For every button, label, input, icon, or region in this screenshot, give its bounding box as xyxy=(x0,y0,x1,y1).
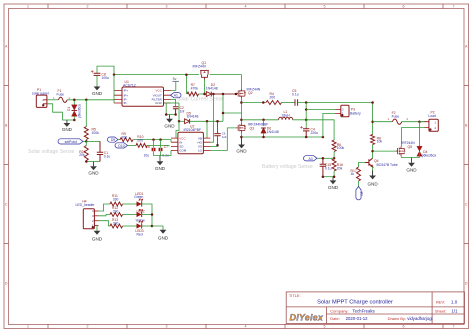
wire pin4 to R11 xyxy=(99,204,111,211)
svg-text:Date:: Date: xyxy=(330,316,340,321)
wire C7 bottom xyxy=(160,151,162,155)
svg-text:1uF: 1uF xyxy=(222,135,227,139)
svg-text:LED_header: LED_header xyxy=(76,203,96,207)
wire to R5 xyxy=(85,100,87,127)
wire battery+ to R8 xyxy=(372,103,374,135)
wire gate line to VB line xyxy=(222,94,224,121)
svg-text:GND: GND xyxy=(367,181,378,186)
junction xyxy=(222,112,225,115)
svg-text:7: 7 xyxy=(453,5,455,9)
junction xyxy=(371,120,374,123)
junction xyxy=(159,138,162,141)
junction xyxy=(151,225,154,228)
svg-text:330: 330 xyxy=(113,198,119,202)
wire D6 to ground rail xyxy=(263,133,265,137)
svg-text:TechFreaks: TechFreaks xyxy=(353,308,375,313)
ground under Q4 xyxy=(367,171,378,187)
wire pin2 to R13 xyxy=(99,221,111,226)
junction xyxy=(85,140,88,143)
wire Q5 source rail xyxy=(402,156,420,157)
wire D5 to VB net xyxy=(190,120,223,122)
svg-text:1N4148: 1N4148 xyxy=(267,130,279,134)
junction xyxy=(165,113,168,116)
svg-text:Fuse: Fuse xyxy=(392,114,400,118)
svg-text:1N4148: 1N4148 xyxy=(206,86,218,90)
svg-text:IP-: IP- xyxy=(124,101,128,105)
junction xyxy=(178,120,181,123)
svg-text:0.1u: 0.1u xyxy=(325,167,332,171)
wire pin1 to ground xyxy=(96,226,98,231)
svg-text:C7: C7 xyxy=(164,145,168,149)
junction xyxy=(262,119,265,122)
junction xyxy=(418,120,421,123)
wire node to R24 xyxy=(85,141,87,145)
wire R5 to setPoint node xyxy=(85,140,87,142)
wire C5 to load column xyxy=(298,102,373,104)
svg-text:Q5: Q5 xyxy=(408,145,413,149)
transistor Q4 BC547B xyxy=(365,158,373,167)
wire GND pin to 5v net riser xyxy=(171,102,180,104)
svg-text:A3: A3 xyxy=(309,157,313,161)
wire A3 node xyxy=(323,157,334,159)
svg-text:Drawn By:: Drawn By: xyxy=(388,316,406,321)
junction xyxy=(322,157,325,160)
svg-text:TITLE:: TITLE: xyxy=(289,293,301,298)
svg-text:C: C xyxy=(5,203,8,207)
junction xyxy=(212,93,215,96)
wire P1 pin1 to GND net xyxy=(47,104,74,120)
resistor R11 xyxy=(110,202,123,206)
capacitor C1 xyxy=(97,141,111,161)
svg-text:GND: GND xyxy=(164,124,175,129)
capacitor C6 10u xyxy=(144,145,156,157)
wire node to Q5 gate xyxy=(373,150,397,152)
junction xyxy=(333,157,336,160)
svg-text:200: 200 xyxy=(122,136,128,140)
wire P3 pin2 to battery+ xyxy=(306,109,335,111)
wire D4 to rail xyxy=(419,151,421,157)
wire F2 to P2 xyxy=(402,121,426,123)
svg-text:VCC: VCC xyxy=(155,89,162,93)
svg-text:solar panel: solar panel xyxy=(32,92,49,96)
wire bus to R7 line xyxy=(185,75,187,94)
svg-text:C: C xyxy=(465,203,468,207)
wire R13 to LED3 xyxy=(123,225,137,227)
LED LED2 Yellow xyxy=(135,209,145,222)
junction xyxy=(152,138,155,141)
svg-text:100u: 100u xyxy=(102,76,110,80)
svg-text:BC547B Tube: BC547B Tube xyxy=(377,163,398,167)
svg-text:GND: GND xyxy=(62,127,73,132)
wire node to C1 xyxy=(86,140,100,142)
svg-text:Red: Red xyxy=(137,232,143,236)
svg-text:5: 5 xyxy=(324,325,326,329)
wire HO to gate line xyxy=(210,94,213,142)
junction xyxy=(240,136,243,139)
svg-text:C6: C6 xyxy=(146,145,150,149)
resistor R13 xyxy=(110,224,123,228)
node setPoint xyxy=(58,139,86,144)
svg-text:Solar Current Sense: Solar Current Sense xyxy=(177,96,224,102)
wire to C6 xyxy=(153,140,155,148)
svg-text:REV:: REV: xyxy=(436,299,445,304)
svg-text:Fuse: Fuse xyxy=(57,92,65,96)
junction xyxy=(151,213,154,216)
diode D1 p6ke36ca TVS xyxy=(67,104,81,118)
wire C8 top to bus xyxy=(97,66,114,75)
svg-text:C9: C9 xyxy=(222,131,226,135)
wire to D5 xyxy=(179,120,184,122)
node D9 input flag xyxy=(107,137,118,142)
svg-text:20k: 20k xyxy=(79,153,85,157)
wire P2 pin1 xyxy=(420,121,425,123)
svg-text:330: 330 xyxy=(113,209,119,213)
wire F1 to ACS712 IP bus xyxy=(67,99,114,101)
wire branch to switch node xyxy=(223,112,241,114)
svg-text:1.0: 1.0 xyxy=(451,300,458,305)
ground under battery divider xyxy=(328,177,339,190)
junction xyxy=(305,136,308,139)
wire L1 to battery+ / R6 xyxy=(293,120,334,140)
wire VCC vertical xyxy=(176,121,179,138)
wire C8 to ground xyxy=(96,75,98,86)
junction xyxy=(262,136,265,139)
svg-text:0.1u: 0.1u xyxy=(292,93,299,97)
svg-text:D: D xyxy=(465,282,468,286)
ground under load switch xyxy=(406,158,417,173)
junction xyxy=(73,99,76,102)
wire to D1 xyxy=(73,100,75,105)
wire R9 to IN xyxy=(133,140,171,143)
svg-text:D9: D9 xyxy=(111,138,115,142)
svg-text:1: 1 xyxy=(27,5,29,9)
node A3 xyxy=(304,156,323,161)
svg-text:Solar MPPT Charge controller: Solar MPPT Charge controller xyxy=(317,300,393,306)
wire D1 to GND rail xyxy=(73,116,75,120)
capacitor C2 xyxy=(173,106,184,115)
LED LED1 Green xyxy=(134,192,144,207)
transistor transistor Q5 IRF244N xyxy=(396,146,405,156)
junction xyxy=(240,101,243,104)
wire P1 pin2 to F1 xyxy=(47,99,59,101)
svg-text:6: 6 xyxy=(403,325,405,329)
node D8 flag below R17 xyxy=(356,187,364,200)
svg-text:4: 4 xyxy=(245,5,247,9)
wire R8 to Q4 collector xyxy=(372,145,374,159)
svg-text:3: 3 xyxy=(166,325,168,329)
svg-text:GND: GND xyxy=(155,101,163,105)
svg-text:0.1u: 0.1u xyxy=(104,154,111,158)
svg-text:LO: LO xyxy=(198,149,203,153)
svg-text:IP+: IP+ xyxy=(124,89,129,93)
wire bus to Q1 xyxy=(114,74,199,76)
capacitor C5 xyxy=(292,89,299,106)
junction xyxy=(113,73,116,76)
svg-text:IR2104PBF: IR2104PBF xyxy=(184,128,202,132)
svg-text:D1: D1 xyxy=(67,107,71,111)
svg-text:D10: D10 xyxy=(118,144,124,148)
wire P3 pin1 to ground rail xyxy=(323,113,335,137)
ground under C6 C7 xyxy=(155,156,166,172)
resistor R6 xyxy=(332,140,344,152)
wire 5v net down to D5 line xyxy=(178,103,180,121)
op-amp U1 ACS712 current sensor xyxy=(114,80,171,106)
ground under H4 xyxy=(92,231,103,242)
resistor R9 xyxy=(120,132,133,141)
diode D4 p6ke36ca TVS xyxy=(417,146,436,157)
junction xyxy=(371,101,374,104)
inductor L1 33uH xyxy=(279,110,293,120)
svg-text:2020-01-12: 2020-01-12 xyxy=(346,316,369,321)
junction xyxy=(240,119,243,122)
svg-text:100k: 100k xyxy=(337,146,345,150)
connector P3 Battery xyxy=(335,105,361,117)
svg-text:ACS712: ACS712 xyxy=(123,83,136,87)
svg-text:GND: GND xyxy=(155,166,166,171)
svg-text:D: D xyxy=(5,282,8,286)
capacitor C7 0.1u xyxy=(159,145,169,157)
junction xyxy=(305,119,308,122)
diode D5 1N4148 xyxy=(185,111,199,123)
wire to F2 xyxy=(373,121,393,123)
op-amp U2 IR2104PBF gate driver xyxy=(171,125,210,154)
svg-text:3: 3 xyxy=(166,5,168,9)
wire flag to R10 xyxy=(130,144,136,146)
junction xyxy=(174,113,177,116)
svg-text:A1: A1 xyxy=(174,94,178,98)
svg-text:10u: 10u xyxy=(144,153,150,157)
wire LED cathode bus xyxy=(142,204,152,226)
diode D2 1N4148 xyxy=(206,83,218,96)
junction xyxy=(222,93,225,96)
svg-text:GND: GND xyxy=(88,171,99,176)
svg-text:200: 200 xyxy=(270,96,276,100)
wire caps bottom / COM xyxy=(154,150,172,155)
svg-text:1: 1 xyxy=(27,325,29,329)
junction xyxy=(185,73,188,76)
connector P2 Load xyxy=(425,110,439,131)
resistor R5 xyxy=(84,127,99,140)
svg-text:10k: 10k xyxy=(377,140,383,144)
connector H4 LED header xyxy=(76,199,99,229)
svg-text:Battery: Battery xyxy=(350,112,361,116)
node D10 input flag xyxy=(115,143,130,148)
svg-text:33uH: 33uH xyxy=(282,113,291,117)
ground under C8 xyxy=(92,86,103,96)
svg-text:vidyadharjogi: vidyadharjogi xyxy=(407,316,432,321)
svg-text:GND: GND xyxy=(236,148,247,153)
resistor R24 xyxy=(79,146,88,161)
svg-text:Solar voltage Sense: Solar voltage Sense xyxy=(28,149,75,155)
svg-text:1N4148: 1N4148 xyxy=(187,115,199,119)
svg-text:200: 200 xyxy=(137,139,143,143)
wire flag to R9 xyxy=(118,139,120,141)
resistor R8 xyxy=(371,135,383,145)
svg-text:GND: GND xyxy=(158,235,169,240)
node A1 at VIOUT xyxy=(171,93,182,98)
junction xyxy=(203,93,206,96)
wire R7 to D2 xyxy=(199,93,207,95)
svg-text:470k: 470k xyxy=(191,87,199,91)
transistor transistor Q3 IRFZ44NPBF xyxy=(237,123,246,132)
wire R17 to flag xyxy=(358,181,360,187)
wire R24/C1 bottom rail xyxy=(86,161,100,162)
wire LED3 cathode xyxy=(142,225,152,227)
capacitor C4 xyxy=(303,128,318,137)
wire R16 bottom xyxy=(333,171,335,177)
connector P1 solar panel xyxy=(32,88,49,107)
wire D2 to Q2 gate xyxy=(211,93,236,95)
svg-text:7: 7 xyxy=(453,325,455,329)
svg-text:setPoint: setPoint xyxy=(65,140,77,144)
wire Q1 gate down xyxy=(204,79,206,94)
svg-text:GND: GND xyxy=(92,91,103,96)
wire rail to R4 xyxy=(241,102,266,104)
transistor Q1 IRFZ44V xyxy=(200,70,209,79)
wire to C7 xyxy=(160,140,162,148)
svg-text:5v: 5v xyxy=(173,77,177,81)
junction xyxy=(206,120,209,123)
svg-text:6: 6 xyxy=(403,5,405,9)
wire switch node to L1 xyxy=(241,119,278,121)
wire Q4 base to R17 xyxy=(359,163,366,168)
resistor R4 xyxy=(266,92,282,104)
wire IP pin bus xyxy=(113,75,115,103)
wire bus Q1 to Q2 drain xyxy=(210,75,242,89)
svg-text:330: 330 xyxy=(113,221,119,225)
junction xyxy=(85,160,88,163)
wire switch node column xyxy=(241,99,243,124)
ground near P1 xyxy=(62,120,73,132)
wire Q4 emitter to ground xyxy=(372,167,374,176)
wire LO to Q3 gate xyxy=(210,128,236,150)
transistor transistor Q2 IRFZ44N xyxy=(237,89,246,99)
ground right of LEDs xyxy=(158,230,169,241)
ground under divider xyxy=(88,162,99,176)
capacitor C9 1uF bootstrap xyxy=(214,121,226,146)
wire to D6 xyxy=(263,120,265,126)
wire 5v to VCC xyxy=(171,81,176,90)
svg-text:GND: GND xyxy=(406,167,417,172)
junction xyxy=(322,136,325,139)
wire to VB pin xyxy=(206,121,208,138)
junction xyxy=(73,119,76,122)
svg-text:2: 2 xyxy=(87,5,89,9)
svg-text:DIYelex: DIYelex xyxy=(290,313,324,323)
wire R11 to LED1 xyxy=(123,203,137,205)
junction xyxy=(333,175,336,178)
resistor R10 xyxy=(136,135,147,147)
svg-text:Company:: Company: xyxy=(330,308,348,313)
wire R6 to A3 node xyxy=(333,152,335,159)
svg-text:COM: COM xyxy=(179,149,187,153)
junction xyxy=(85,99,88,102)
resistor R12 xyxy=(110,213,123,217)
wire battery+ column xyxy=(305,103,307,128)
diode D6 1N4148 xyxy=(261,126,279,134)
wire VS to C9 xyxy=(210,145,217,147)
wire bus to ground xyxy=(152,226,163,230)
junction xyxy=(305,108,308,111)
svg-text:4: 4 xyxy=(245,325,247,329)
LED LED3 Red xyxy=(135,221,143,237)
svg-text:5: 5 xyxy=(324,5,326,9)
ground under U1 xyxy=(164,115,175,129)
svg-text:Green: Green xyxy=(134,195,143,199)
junction xyxy=(305,101,308,104)
svg-text:100k: 100k xyxy=(92,131,100,135)
svg-text:Q3: Q3 xyxy=(250,126,255,130)
junction xyxy=(216,120,219,123)
svg-text:220u: 220u xyxy=(311,131,319,135)
svg-text:D8: D8 xyxy=(360,191,364,195)
wire ground rail xyxy=(241,136,323,138)
power flag 5v xyxy=(172,77,179,81)
wire LED2 cathode xyxy=(142,214,152,216)
junction xyxy=(371,150,374,153)
svg-text:Load: Load xyxy=(428,114,436,118)
svg-text:IRFZ44V: IRFZ44V xyxy=(193,65,207,69)
svg-text:LED2: LED2 xyxy=(137,209,145,213)
svg-text:GND: GND xyxy=(328,185,339,190)
wire R12 to LED2 xyxy=(123,214,137,216)
fuse F1 xyxy=(53,89,71,103)
resistor R7 xyxy=(187,83,199,96)
svg-text:Sheet:: Sheet: xyxy=(435,308,447,313)
svg-text:1nf: 1nf xyxy=(180,109,185,113)
title block xyxy=(286,292,464,324)
svg-text:2: 2 xyxy=(87,325,89,329)
ground under Q3 xyxy=(236,137,247,153)
svg-text:p6ke36ca: p6ke36ca xyxy=(422,154,436,158)
wire U1 GND rail xyxy=(166,103,175,115)
svg-text:Battery voltage Sense: Battery voltage Sense xyxy=(262,164,313,170)
svg-text:1k: 1k xyxy=(351,172,355,176)
wire Q3 source to ground xyxy=(241,133,243,145)
wire pin3 to R12 xyxy=(99,215,111,216)
wire FILTER to C2 xyxy=(171,99,176,106)
resistor R17 xyxy=(351,167,361,181)
svg-text:1/1: 1/1 xyxy=(452,308,459,313)
svg-text:Q2: Q2 xyxy=(248,91,253,95)
svg-text:p6ke36ca: p6ke36ca xyxy=(78,104,82,118)
wire divider bottom rail xyxy=(323,176,334,178)
capacitor C8 100u electrolytic xyxy=(91,70,109,80)
wire R10 to SD xyxy=(147,145,169,146)
capacitor C15 xyxy=(320,158,332,176)
junction xyxy=(322,175,325,178)
resistor R16 xyxy=(332,159,343,171)
svg-text:20k: 20k xyxy=(337,166,343,170)
wire to D4 xyxy=(419,122,421,147)
wire R4 to C5 xyxy=(282,102,295,104)
junction xyxy=(262,101,265,104)
wire P2 pin2 to Q5 drain xyxy=(402,128,425,147)
svg-text:GND: GND xyxy=(92,236,103,241)
